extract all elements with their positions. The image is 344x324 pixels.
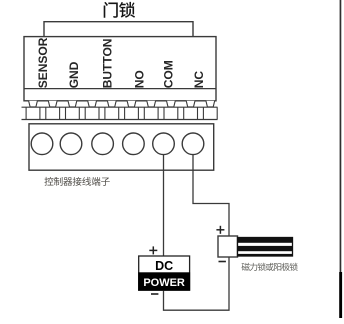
svg-text:BUTTON: BUTTON [101, 39, 115, 89]
svg-text:POWER: POWER [143, 277, 185, 289]
svg-text:GND: GND [67, 61, 81, 88]
svg-text:NC: NC [192, 71, 206, 89]
svg-text:COM: COM [162, 60, 176, 88]
svg-text:NO: NO [133, 70, 147, 88]
svg-text:SENSOR: SENSOR [36, 37, 50, 88]
svg-text:DC: DC [155, 259, 173, 273]
